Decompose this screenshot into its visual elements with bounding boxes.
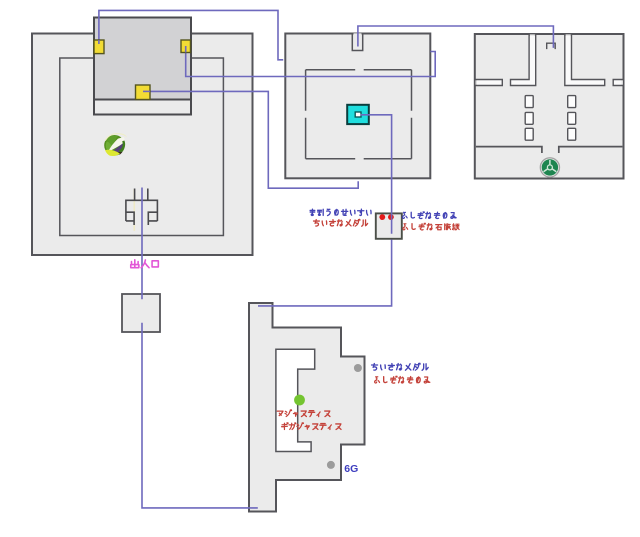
svg-text:6G: 6G [344, 463, 358, 475]
